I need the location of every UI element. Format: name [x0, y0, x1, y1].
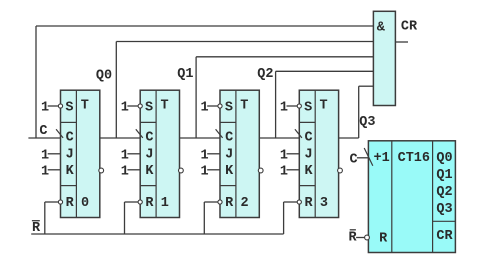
label bit number 0 of FF1: [81, 196, 89, 211]
pin Q0 output of CT16: [436, 151, 452, 166]
wire: Q1 tap up to AND gate input 3: [196, 57, 373, 138]
svg-text:S: S: [225, 100, 233, 115]
pin J of FF4 with constant 1: [280, 148, 313, 164]
pin Q-bar (inverted output bubble) of FF2: [179, 168, 184, 173]
R-bar reset bus along bottom: [31, 233, 283, 235]
node C (clock input label): [39, 124, 47, 139]
flip-flop FF2 (T flip-flop from JK): [140, 90, 179, 217]
svg-text:CR: CR: [436, 229, 453, 244]
pin S (set, active low) of FF2 with constant 1: [121, 100, 153, 115]
pin R (reset) of CT16 with R-bar input bubble: [348, 230, 388, 247]
pin R (reset, active low) of FF3 wired to R-bar bus: [204, 196, 234, 234]
label bit number 3 of FF4: [320, 196, 328, 211]
svg-text:CR: CR: [401, 20, 418, 35]
flip-flop FF4 (T flip-flop from JK): [299, 90, 338, 217]
label T (toggle mode) of FF2: [160, 98, 168, 113]
svg-text:Q0: Q0: [96, 69, 112, 84]
svg-text:1: 1: [41, 164, 49, 179]
pin C (clock, falling edge) of FF2: [136, 129, 154, 145]
pin Q-bar (inverted output bubble) of FF4: [338, 168, 343, 173]
svg-text:&: &: [377, 20, 386, 35]
svg-text:CT16: CT16: [398, 151, 430, 166]
svg-text:T: T: [81, 98, 89, 113]
svg-text:R: R: [66, 196, 75, 211]
svg-text:R: R: [304, 196, 313, 211]
svg-text:J: J: [225, 148, 233, 163]
pin C (clock, falling edge) of FF1: [56, 129, 74, 145]
svg-text:T: T: [240, 98, 248, 113]
svg-text:C: C: [39, 124, 47, 139]
svg-text:T: T: [320, 98, 328, 113]
pin K of FF4 with constant 1: [280, 164, 314, 179]
pin J of FF3 with constant 1: [201, 148, 234, 164]
wire: Q2 tap up to AND gate input 4: [276, 71, 374, 138]
label T (toggle mode) of FF3: [240, 98, 248, 113]
svg-text:3: 3: [320, 196, 328, 211]
wire: external clock C into FF1: [28, 137, 60, 139]
pin Q-bar (inverted output bubble) of FF1: [99, 168, 104, 173]
pin K of FF2 with constant 1: [121, 164, 155, 179]
svg-text:1: 1: [280, 164, 288, 179]
svg-text:1: 1: [280, 148, 288, 163]
pin C (clock, falling edge) of FF3: [216, 129, 234, 145]
wire: Q2 from FF3 to FF4 clock: [259, 137, 299, 139]
svg-text:R: R: [348, 231, 357, 246]
pin Q2 output of CT16: [436, 185, 452, 200]
flip-flop FF3 (T flip-flop from JK): [220, 90, 259, 217]
label CT16: [398, 151, 430, 166]
node Q2: [257, 67, 273, 82]
svg-text:J: J: [66, 148, 74, 163]
label bit number 1 of FF2: [161, 196, 169, 211]
svg-text:1: 1: [121, 101, 129, 116]
svg-text:1: 1: [121, 148, 129, 163]
svg-text:T: T: [160, 98, 168, 113]
AND gate U1 (carry generator): [373, 11, 395, 105]
svg-text:1: 1: [201, 164, 209, 179]
svg-text:R: R: [379, 231, 388, 246]
svg-text:R: R: [32, 221, 41, 236]
node CR (carry output label): [401, 20, 418, 35]
pin K of FF3 with constant 1: [201, 164, 235, 179]
svg-text:C: C: [66, 131, 74, 146]
svg-text:K: K: [225, 164, 234, 179]
pin J of FF1 with constant 1: [41, 148, 74, 164]
pin K of FF1 with constant 1: [41, 164, 75, 179]
svg-text:S: S: [65, 100, 73, 115]
svg-text:1: 1: [41, 101, 49, 116]
svg-text:K: K: [145, 164, 154, 179]
pin +1 (count up clock input) of CT16: [349, 148, 389, 168]
svg-text:J: J: [145, 148, 153, 163]
pin S (set, active low) of FF3 with constant 1: [201, 100, 233, 115]
pin Q-bar (inverted output bubble) of FF3: [258, 168, 263, 173]
flip-flop FF1 (T flip-flop from JK): [61, 90, 100, 217]
svg-text:Q0: Q0: [436, 151, 452, 166]
svg-text:J: J: [304, 148, 312, 163]
svg-text:C: C: [225, 131, 233, 146]
pin J of FF2 with constant 1: [121, 148, 154, 164]
svg-text:Q1: Q1: [436, 168, 452, 183]
wire: Q0 from FF1 to FF2 clock: [100, 137, 140, 139]
pin C (clock, falling edge) of FF4: [295, 129, 313, 145]
svg-text:1: 1: [201, 148, 209, 163]
svg-text:C: C: [304, 131, 312, 146]
label T (toggle mode) of FF4: [320, 98, 328, 113]
wire: Q1 from FF2 to FF3 clock: [180, 137, 221, 139]
svg-text:C: C: [145, 131, 153, 146]
svg-text:1: 1: [161, 196, 169, 211]
pin Q3 output of CT16: [436, 202, 452, 217]
label T (toggle mode) of FF1: [81, 98, 89, 113]
svg-text:C: C: [349, 153, 357, 168]
node Q1: [177, 67, 193, 82]
svg-text:0: 0: [81, 196, 89, 211]
pin S (set, active low) of FF4 with constant 1: [280, 100, 312, 115]
pin S (set, active low) of FF1 with constant 1: [41, 100, 73, 115]
counter CT16 (equivalent symbol): [368, 141, 455, 253]
wire: Q0 tap up to AND gate input 2: [116, 42, 373, 139]
node Q3: [359, 115, 375, 130]
svg-text:K: K: [304, 164, 313, 179]
node R-bar (reset input label): [32, 221, 41, 236]
svg-text:Q1: Q1: [177, 67, 193, 82]
svg-text:1: 1: [121, 164, 129, 179]
svg-text:S: S: [304, 100, 312, 115]
svg-text:K: K: [66, 164, 75, 179]
pin Q1 output of CT16: [436, 168, 452, 183]
node Q0: [96, 69, 112, 84]
svg-text:Q2: Q2: [436, 185, 452, 200]
svg-text:1: 1: [41, 148, 49, 163]
svg-text:R: R: [145, 196, 154, 211]
wire: Q3 from FF4 up to AND gate input 5: [339, 86, 374, 138]
wire: C tap up to AND gate input 1: [36, 26, 373, 138]
svg-text:Q2: Q2: [257, 67, 273, 82]
label bit number 2 of FF3: [241, 196, 249, 211]
pin R (reset, active low) of FF4 wired to R-bar bus: [284, 196, 314, 234]
svg-text:Q3: Q3: [359, 115, 375, 130]
svg-text:R: R: [225, 196, 234, 211]
wire: AND gate output stub: [395, 41, 408, 43]
pin R (reset, active low) of FF1 wired to R-bar bus: [45, 196, 75, 234]
pin CR carry output of CT16: [436, 229, 453, 244]
svg-text:1: 1: [280, 101, 288, 116]
pin R (reset, active low) of FF2 wired to R-bar bus: [125, 196, 155, 234]
svg-text:2: 2: [241, 196, 249, 211]
svg-text:+1: +1: [373, 151, 389, 166]
svg-text:1: 1: [201, 101, 209, 116]
svg-text:Q3: Q3: [436, 202, 452, 217]
svg-text:S: S: [145, 100, 153, 115]
